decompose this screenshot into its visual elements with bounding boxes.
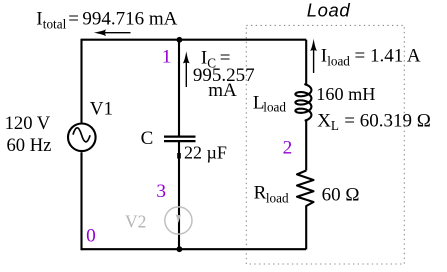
svg-text:60 Ω: 60 Ω <box>322 185 360 206</box>
svg-text:=: = <box>68 9 79 30</box>
svg-text:mA: mA <box>208 80 237 101</box>
svg-text:120 V: 120 V <box>5 113 51 134</box>
svg-text:1: 1 <box>162 47 172 68</box>
svg-text:160 mH: 160 mH <box>316 84 375 104</box>
svg-text:3: 3 <box>156 181 166 202</box>
svg-text:load: load <box>266 191 289 206</box>
svg-text:V1: V1 <box>90 98 113 119</box>
svg-text:I: I <box>321 46 327 67</box>
svg-text:load: load <box>327 54 350 69</box>
svg-text:total: total <box>43 17 67 32</box>
svg-text:V2: V2 <box>125 211 146 231</box>
svg-text:C: C <box>141 128 154 149</box>
svg-text:I: I <box>36 9 42 30</box>
svg-text:60 Hz: 60 Hz <box>7 135 52 156</box>
svg-text:994.716 mA: 994.716 mA <box>82 9 177 30</box>
svg-text:= 1.41 A: = 1.41 A <box>355 46 421 67</box>
svg-text:L: L <box>331 118 339 133</box>
svg-text:0: 0 <box>86 226 96 247</box>
svg-text:2: 2 <box>283 137 293 158</box>
svg-text:22 µF: 22 µF <box>184 143 227 163</box>
svg-text:Load: Load <box>307 0 351 20</box>
svg-text:R: R <box>254 183 267 204</box>
svg-text:X: X <box>317 111 331 132</box>
svg-text:= 60.319 Ω: = 60.319 Ω <box>344 111 431 132</box>
svg-text:load: load <box>263 100 286 115</box>
